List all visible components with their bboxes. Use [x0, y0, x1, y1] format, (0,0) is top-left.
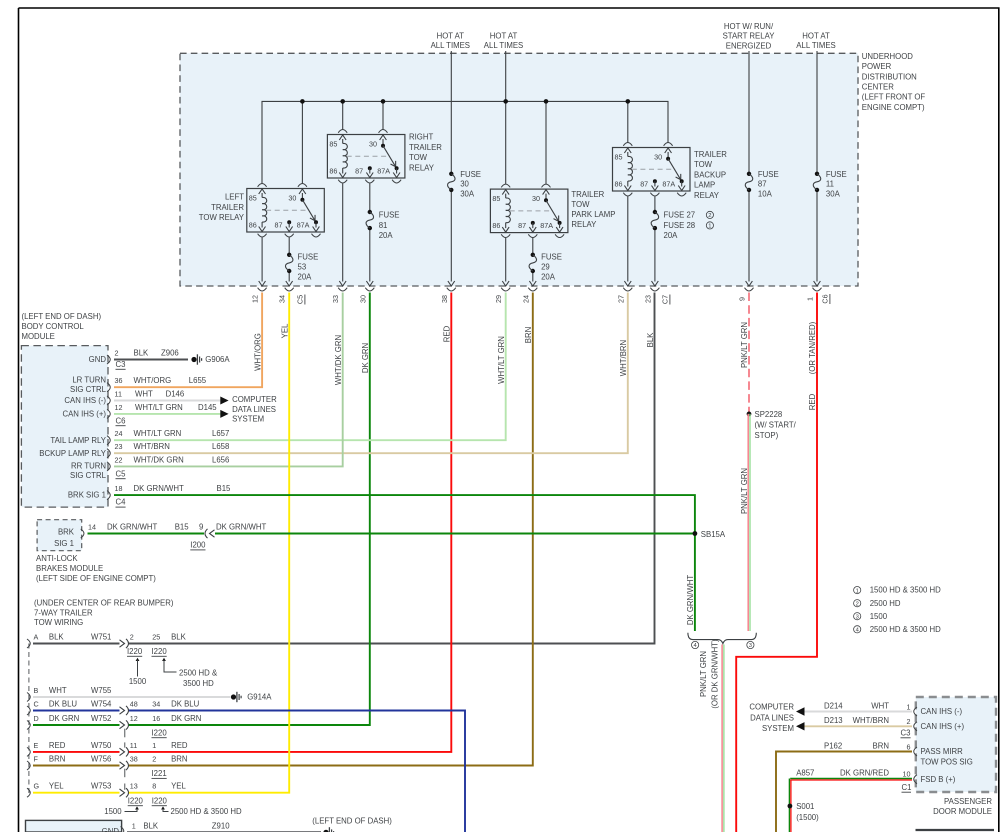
wire trailer row A BLK W751 to PDC pin 23: [33, 293, 655, 644]
svg-text:2: 2: [130, 633, 134, 642]
svg-text:22: 22: [115, 455, 123, 464]
wire feed from HOT AT ALL TIMES to bus and park lamp relay 85: [505, 51, 507, 185]
svg-text:D: D: [34, 714, 39, 723]
svg-text:FUSE: FUSE: [541, 252, 562, 261]
svg-text:I200: I200: [190, 541, 206, 550]
svg-text:11: 11: [115, 390, 122, 399]
wire 1 BLK Z910 to ground (cut off): [121, 821, 322, 832]
circled variant marker 3: [747, 641, 754, 649]
svg-text:6: 6: [907, 742, 911, 751]
fuse FUSE 53 20A: [285, 252, 318, 281]
connector label C6: [821, 294, 830, 304]
svg-text:COMPUTER: COMPUTER: [232, 395, 277, 404]
svg-text:87A: 87A: [377, 167, 390, 176]
svg-text:I220: I220: [127, 647, 143, 656]
wire BCM pin 18 DK GRN/WHT B15 brake signal to splice SB15A: [114, 495, 695, 631]
svg-text:29: 29: [541, 263, 550, 272]
svg-text:1: 1: [856, 588, 859, 594]
svg-text:PNK/LT GRN: PNK/LT GRN: [740, 322, 749, 368]
svg-text:RED: RED: [443, 325, 452, 342]
svg-text:D146: D146: [166, 390, 185, 399]
svg-text:86: 86: [492, 221, 500, 230]
svg-text:YEL: YEL: [49, 782, 64, 791]
svg-text:DK GRN: DK GRN: [361, 343, 370, 373]
svg-text:7-WAY TRAILER: 7-WAY TRAILER: [34, 608, 93, 617]
module BODY CONTROL MODULE box: [21, 312, 108, 507]
svg-text:BRK: BRK: [58, 528, 75, 537]
svg-text:8: 8: [152, 782, 156, 791]
BCM pin GND / 2 BLK Z906 to ground G906A: [89, 349, 188, 365]
svg-text:BLK: BLK: [171, 633, 187, 642]
svg-text:WHT/DK GRN: WHT/DK GRN: [134, 455, 184, 464]
svg-text:1: 1: [708, 224, 711, 230]
svg-text:2500 HD & 3500 HD: 2500 HD & 3500 HD: [870, 625, 941, 634]
svg-text:WHT/ORG: WHT/ORG: [253, 333, 262, 371]
svg-text:12: 12: [115, 403, 123, 412]
connector label C6 (BCM): [116, 416, 126, 425]
svg-text:FUSE 27: FUSE 27: [664, 211, 696, 220]
svg-text:20A: 20A: [664, 231, 679, 240]
svg-text:L656: L656: [212, 455, 229, 464]
BCM pin RR TURN SIG CTRL 22: [70, 455, 229, 480]
svg-text:CAN IHS (-): CAN IHS (-): [64, 396, 106, 405]
splice SB15A: [693, 530, 726, 539]
module 7-WAY TRAILER TOW WIRING title: [34, 599, 174, 628]
wire merged PNK/LT GRN (OR DK GRN/WHT) off page bottom: [722, 645, 724, 832]
module PASSENGER DOOR MODULE box: [916, 697, 996, 816]
svg-text:PASSENGER: PASSENGER: [944, 797, 992, 806]
svg-text:DK GRN/RED: DK GRN/RED: [840, 768, 889, 777]
svg-text:A857: A857: [796, 768, 814, 777]
svg-text:BACKUP: BACKUP: [694, 170, 726, 179]
svg-text:RELAY: RELAY: [571, 220, 597, 229]
svg-text:RELAY: RELAY: [694, 191, 720, 200]
svg-text:2: 2: [115, 349, 119, 358]
wire trailer row C DK BLU W754 down off page: [33, 711, 465, 832]
net HOT AT ALL TIMES (relay bus feed): [484, 31, 523, 50]
svg-text:1: 1: [152, 741, 156, 750]
ground G906A: [191, 354, 230, 364]
svg-text:1: 1: [806, 297, 815, 301]
svg-text:E: E: [34, 741, 39, 750]
svg-text:TAIL LAMP RLY: TAIL LAMP RLY: [50, 436, 106, 445]
svg-text:LR TURN: LR TURN: [72, 376, 106, 385]
wire bus to right relay 30: [382, 101, 384, 129]
svg-text:86: 86: [249, 221, 257, 230]
connector label C4 (BCM): [116, 498, 127, 507]
net HOT AT ALL TIMES (fuse 30 feed): [431, 31, 470, 50]
svg-text:DATA LINES: DATA LINES: [750, 714, 794, 723]
svg-text:87: 87: [758, 180, 767, 189]
svg-text:C5: C5: [116, 469, 127, 478]
svg-text:LAMP: LAMP: [694, 181, 715, 190]
net HOT W/ RUN/ START RELAY ENERGIZED (fuse 87 feed): [723, 22, 776, 50]
svg-text:BLK: BLK: [134, 349, 150, 358]
svg-text:2500 HD &: 2500 HD &: [179, 668, 218, 677]
svg-text:2500 HD: 2500 HD: [870, 599, 901, 608]
svg-text:TRAILER: TRAILER: [211, 203, 244, 212]
svg-text:30: 30: [460, 180, 469, 189]
svg-text:2500 HD & 3500 HD: 2500 HD & 3500 HD: [171, 807, 242, 816]
svg-text:SIG 1: SIG 1: [54, 539, 74, 548]
svg-text:85: 85: [249, 194, 257, 203]
svg-text:87A: 87A: [540, 221, 553, 230]
svg-text:FUSE: FUSE: [758, 170, 779, 179]
fuse FUSE 11 30A: [813, 170, 846, 198]
svg-text:PARK LAMP: PARK LAMP: [571, 210, 615, 219]
svg-text:20A: 20A: [379, 231, 394, 240]
connector label C5 (BCM): [116, 469, 127, 478]
svg-text:SIG CTRL: SIG CTRL: [70, 471, 107, 480]
connector label C5: [296, 295, 305, 305]
svg-text:87: 87: [518, 221, 526, 230]
svg-text:DOOR MODULE: DOOR MODULE: [933, 807, 992, 816]
svg-text:TOW WIRING: TOW WIRING: [34, 618, 83, 627]
svg-text:RIGHT: RIGHT: [409, 133, 433, 142]
module ANTI-LOCK BRAKES MODULE (BRK SIG 1 box): [36, 520, 156, 583]
svg-text:TOW POS SIG: TOW POS SIG: [921, 758, 973, 767]
wire trailer row B WHT W755 to ground G914A: [33, 696, 231, 698]
wire PDM pin 10 A857 DK GRN/RED down off page: [789, 768, 955, 832]
svg-text:3: 3: [856, 614, 859, 620]
trailer pin D DK GRN W752: [27, 714, 201, 730]
svg-text:85: 85: [615, 153, 623, 162]
svg-text:30: 30: [532, 194, 540, 203]
svg-text:RED: RED: [171, 741, 188, 750]
legend variant markers: [854, 586, 942, 634]
svg-text:RR TURN: RR TURN: [71, 462, 106, 471]
svg-text:C7: C7: [661, 295, 670, 304]
wire BCM pin 22 WHT/DK GRN L656 to PDC pin 33: [114, 293, 343, 467]
trailer pin G YEL W753: [27, 782, 187, 798]
svg-text:C1: C1: [902, 783, 912, 792]
svg-text:30: 30: [358, 295, 367, 303]
svg-text:DK GRN/WHT: DK GRN/WHT: [216, 522, 266, 531]
svg-text:TOW: TOW: [694, 160, 713, 169]
svg-text:20A: 20A: [298, 273, 313, 282]
svg-text:2: 2: [856, 601, 859, 607]
svg-text:C6: C6: [821, 294, 830, 303]
svg-text:FSD B (+): FSD B (+): [921, 775, 956, 784]
svg-text:START RELAY: START RELAY: [723, 32, 776, 41]
connector label C7: [661, 295, 670, 305]
label DK GRN/WHT vertical above brace: [686, 575, 695, 625]
wire left relay 87 through FUSE 53 to pin 34: [286, 238, 293, 287]
svg-text:86: 86: [615, 180, 623, 189]
svg-text:BRN: BRN: [524, 327, 533, 343]
svg-text:HOT AT: HOT AT: [490, 31, 518, 40]
svg-text:ALL TIMES: ALL TIMES: [484, 41, 523, 50]
junction dots on bus: [300, 99, 630, 104]
brace merging wires (4) and (3): [688, 633, 756, 644]
svg-text:BRN: BRN: [49, 755, 65, 764]
svg-text:MODULE: MODULE: [22, 332, 55, 341]
splice S001 (1500): [788, 802, 820, 822]
svg-text:13: 13: [130, 782, 138, 791]
fuse FUSE 29 20A: [529, 252, 562, 281]
trailer connector dashed outline: [28, 644, 30, 794]
wire trailer row E RED W750 to PDC pin 38: [33, 293, 451, 752]
svg-text:D145: D145: [198, 403, 217, 412]
svg-text:DK BLU: DK BLU: [171, 700, 200, 709]
svg-text:BRN: BRN: [873, 741, 889, 750]
svg-text:G914A: G914A: [247, 693, 272, 702]
svg-text:FUSE: FUSE: [460, 170, 481, 179]
svg-text:BLK: BLK: [49, 633, 65, 642]
svg-text:DATA LINES: DATA LINES: [232, 405, 276, 414]
svg-text:3500 HD: 3500 HD: [183, 679, 214, 688]
svg-text:9: 9: [199, 522, 203, 531]
wire PDC pin 1 RED (OR TAN/RED) down and off page: [736, 293, 817, 832]
svg-text:TOW: TOW: [571, 200, 590, 209]
svg-text:BRAKES MODULE: BRAKES MODULE: [36, 564, 103, 573]
svg-text:Z910: Z910: [212, 821, 230, 830]
svg-text:DK GRN/WHT: DK GRN/WHT: [134, 484, 184, 493]
svg-text:27: 27: [616, 295, 625, 303]
svg-text:ENERGIZED: ENERGIZED: [726, 41, 772, 50]
wire right relay 87 through FUSE 81 to pin 30: [366, 184, 373, 287]
svg-text:87A: 87A: [297, 221, 310, 230]
trailer pin E RED W750: [27, 741, 188, 757]
svg-text:UNDERHOOD: UNDERHOOD: [862, 52, 913, 61]
relay LEFT TRAILER TOW RELAY: [199, 184, 325, 237]
svg-text:BLK: BLK: [143, 821, 159, 830]
svg-text:WHT/LT GRN: WHT/LT GRN: [134, 429, 182, 438]
svg-text:SYSTEM: SYSTEM: [762, 724, 794, 733]
relay RIGHT TRAILER TOW RELAY: [327, 130, 442, 183]
svg-text:C: C: [34, 700, 39, 709]
circled variant marker 4: [692, 641, 699, 649]
svg-text:L657: L657: [212, 429, 229, 438]
trailer pin A BLK W751: [27, 633, 187, 649]
svg-text:W753: W753: [91, 782, 111, 791]
svg-text:81: 81: [379, 221, 388, 230]
svg-text:30A: 30A: [460, 189, 475, 198]
label (OR TAN/RED) RED: [808, 321, 817, 410]
svg-text:9: 9: [738, 297, 747, 301]
svg-text:(LEFT FRONT OF: (LEFT FRONT OF: [862, 93, 926, 102]
svg-text:16: 16: [152, 714, 160, 723]
wire bus to right relay 85: [342, 101, 344, 129]
svg-text:1500: 1500: [129, 677, 147, 686]
svg-text:(UNDER CENTER OF REAR BUMPER): (UNDER CENTER OF REAR BUMPER): [34, 599, 174, 608]
svg-text:DK GRN: DK GRN: [171, 714, 201, 723]
svg-text:1: 1: [907, 702, 911, 711]
svg-text:G906A: G906A: [205, 355, 230, 364]
svg-text:SIG CTRL: SIG CTRL: [70, 385, 107, 394]
svg-text:(OR TAN/RED): (OR TAN/RED): [808, 321, 817, 374]
wire PDM pin 2 D213 WHT/BRN: [805, 716, 965, 731]
svg-text:29: 29: [494, 295, 503, 303]
trailer pin F BRN W756: [27, 755, 188, 771]
wire bus to backup relay 85: [627, 101, 629, 142]
trailer pin C DK BLU W754: [27, 700, 200, 716]
svg-text:10A: 10A: [758, 189, 773, 198]
wire HOT W/ RUN feed through FUSE 87 to pin 9: [746, 51, 753, 286]
svg-text:DISTRIBUTION: DISTRIBUTION: [862, 72, 917, 81]
svg-text:48: 48: [130, 700, 138, 709]
svg-text:87: 87: [355, 167, 363, 176]
svg-text:30A: 30A: [826, 189, 841, 198]
BCM pin BRK SIG 1 18 DK GRN/WHT B15: [68, 484, 231, 500]
svg-text:87: 87: [640, 180, 648, 189]
svg-text:WHT/LT GRN: WHT/LT GRN: [135, 403, 183, 412]
ABS pin 14 and wire labels: [81, 522, 267, 538]
svg-text:11: 11: [130, 741, 137, 750]
connector label C3 (PDM): [901, 728, 911, 737]
wire right relay 86 to pin 33: [339, 184, 346, 287]
relay TRAILER TOW BACKUP LAMP RELAY: [613, 143, 728, 200]
wire SP2228 PNK/LT GRN down to brace: [748, 414, 750, 631]
svg-text:TRAILER: TRAILER: [571, 190, 604, 199]
svg-text:34: 34: [278, 295, 287, 303]
wire PDC pin 9 PNK/LT GRN (dashed) to splice SP2228: [748, 293, 750, 414]
svg-text:RED: RED: [49, 741, 66, 750]
svg-text:14: 14: [88, 522, 96, 531]
relay TRAILER TOW PARK LAMP RELAY: [490, 184, 615, 237]
label (LEFT END OF DASH) bottom: [312, 816, 392, 825]
svg-text:34: 34: [152, 700, 160, 709]
svg-text:C6: C6: [116, 416, 126, 425]
svg-text:D214: D214: [824, 701, 843, 710]
svg-text:YEL: YEL: [171, 782, 186, 791]
svg-text:1500: 1500: [870, 612, 888, 621]
svg-text:23: 23: [643, 295, 652, 303]
underhood power distribution center box: [180, 52, 925, 286]
svg-text:P162: P162: [824, 741, 842, 750]
svg-text:FUSE: FUSE: [379, 211, 400, 220]
wire BCM pin 36 WHT/ORG L655 to PDC pin 12: [114, 293, 262, 388]
svg-text:WHT/BRN: WHT/BRN: [853, 716, 889, 725]
wire left relay 86 to pin 12: [259, 238, 266, 287]
svg-text:(LEFT END OF DASH): (LEFT END OF DASH): [22, 312, 102, 321]
svg-text:BLK: BLK: [646, 332, 655, 348]
svg-text:HOT W/ RUN/: HOT W/ RUN/: [724, 22, 774, 31]
svg-text:GND: GND: [102, 827, 120, 832]
svg-text:FUSE: FUSE: [826, 170, 847, 179]
connector note I220 I220 (below row G): [104, 796, 242, 816]
ground G914A (trailer row B): [231, 692, 272, 702]
wire trailer row D DK GRN W752 to PDC pin 30: [33, 293, 370, 726]
svg-text:DK GRN/WHT: DK GRN/WHT: [686, 575, 695, 625]
wire backup relay 86 to pin 27: [624, 197, 631, 287]
svg-text:RELAY: RELAY: [409, 164, 435, 173]
svg-text:86: 86: [329, 167, 337, 176]
svg-text:20A: 20A: [541, 273, 556, 282]
svg-text:C5: C5: [296, 295, 305, 304]
svg-text:ALL TIMES: ALL TIMES: [431, 41, 470, 50]
svg-text:FUSE: FUSE: [298, 252, 319, 261]
connector note I220 I220 (row A): [127, 647, 218, 688]
svg-text:30: 30: [369, 140, 377, 149]
svg-text:PNK/LT GRN: PNK/LT GRN: [699, 651, 708, 697]
svg-text:W752: W752: [91, 714, 111, 723]
BCM pin LR TURN SIG CTRL 36: [70, 376, 207, 395]
svg-text:COMPUTER: COMPUTER: [749, 702, 794, 711]
svg-text:WHT/DK GRN: WHT/DK GRN: [334, 335, 343, 385]
svg-text:BRK SIG 1: BRK SIG 1: [68, 491, 106, 500]
trailer pin B WHT W755: [27, 686, 112, 702]
BCM pin CAN IHS (+) 12 WHT/LT GRN D145: [62, 403, 220, 419]
svg-text:2: 2: [152, 755, 156, 764]
wire color labels (vertical): [253, 322, 749, 385]
svg-text:W751: W751: [91, 633, 111, 642]
svg-text:25: 25: [152, 633, 160, 642]
svg-text:I220: I220: [128, 796, 144, 805]
svg-text:30: 30: [654, 153, 662, 162]
svg-text:BODY CONTROL: BODY CONTROL: [22, 322, 85, 331]
svg-text:30: 30: [288, 194, 296, 203]
wire HOT AT ALL TIMES through FUSE 30 to pin 38: [448, 51, 455, 286]
connector note I220 (rows D/E): [125, 728, 168, 747]
svg-text:W750: W750: [91, 741, 112, 750]
svg-text:2: 2: [708, 213, 711, 219]
svg-text:85: 85: [329, 140, 337, 149]
svg-text:33: 33: [331, 295, 340, 303]
module box edge bottom right: [916, 829, 995, 831]
svg-text:GND: GND: [89, 355, 107, 364]
svg-text:POWER: POWER: [862, 62, 892, 71]
svg-text:G: G: [34, 782, 40, 791]
svg-text:CENTER: CENTER: [862, 83, 894, 92]
svg-text:L658: L658: [212, 442, 229, 451]
svg-text:YEL: YEL: [280, 323, 289, 338]
svg-text:FUSE 28: FUSE 28: [664, 221, 696, 230]
svg-text:23: 23: [115, 442, 123, 451]
svg-text:(LEFT END OF DASH): (LEFT END OF DASH): [312, 816, 392, 825]
svg-text:I221: I221: [152, 769, 167, 778]
svg-text:ENGINE COMPT): ENGINE COMPT): [862, 103, 925, 112]
svg-text:B15: B15: [217, 484, 232, 493]
wire park relay 87 through FUSE 29 to pin 24: [529, 238, 536, 286]
wire B+ bus inside PDC: [262, 101, 668, 184]
computer data lines system (PDM side): [749, 702, 804, 733]
svg-text:WHT: WHT: [49, 686, 67, 695]
svg-text:SP2228: SP2228: [755, 410, 783, 419]
label PNK/LT GRN (OR DK GRN/WHT) merged wire: [699, 639, 719, 709]
svg-text:WHT: WHT: [871, 701, 889, 710]
svg-text:CAN IHS (-): CAN IHS (-): [921, 707, 963, 716]
svg-text:C3: C3: [901, 728, 911, 737]
svg-text:W756: W756: [91, 755, 111, 764]
svg-text:2: 2: [907, 717, 911, 726]
svg-text:TRAILER: TRAILER: [409, 143, 442, 152]
svg-text:1500: 1500: [104, 807, 122, 816]
svg-text:SYSTEM: SYSTEM: [232, 415, 264, 424]
svg-text:W755: W755: [91, 686, 112, 695]
svg-text:RED: RED: [808, 393, 817, 410]
svg-text:38: 38: [440, 295, 449, 303]
svg-text:B: B: [34, 686, 39, 695]
fuse FUSE 87 10A: [745, 170, 778, 198]
svg-text:11: 11: [826, 180, 834, 189]
svg-text:TRAILER: TRAILER: [694, 150, 727, 159]
svg-text:C4: C4: [116, 498, 127, 507]
svg-text:85: 85: [492, 194, 500, 203]
wire ABS 14 DK GRN/WHT B15 to splice SB15A: [88, 533, 695, 535]
svg-text:I220: I220: [152, 728, 168, 737]
svg-text:(OR DK GRN/WHT): (OR DK GRN/WHT): [710, 639, 719, 709]
svg-text:87A: 87A: [662, 180, 675, 189]
svg-text:CAN IHS (+): CAN IHS (+): [62, 410, 106, 419]
connector label C1 (PDM): [902, 783, 912, 792]
svg-text:WHT/ORG: WHT/ORG: [134, 376, 172, 385]
svg-text:L655: L655: [189, 376, 207, 385]
wire bus to park lamp relay 30: [545, 101, 547, 184]
svg-text:12: 12: [251, 295, 260, 303]
label PNK/LT GRN below SP2228: [740, 468, 749, 514]
fuse FUSE 81 20A: [366, 210, 399, 240]
